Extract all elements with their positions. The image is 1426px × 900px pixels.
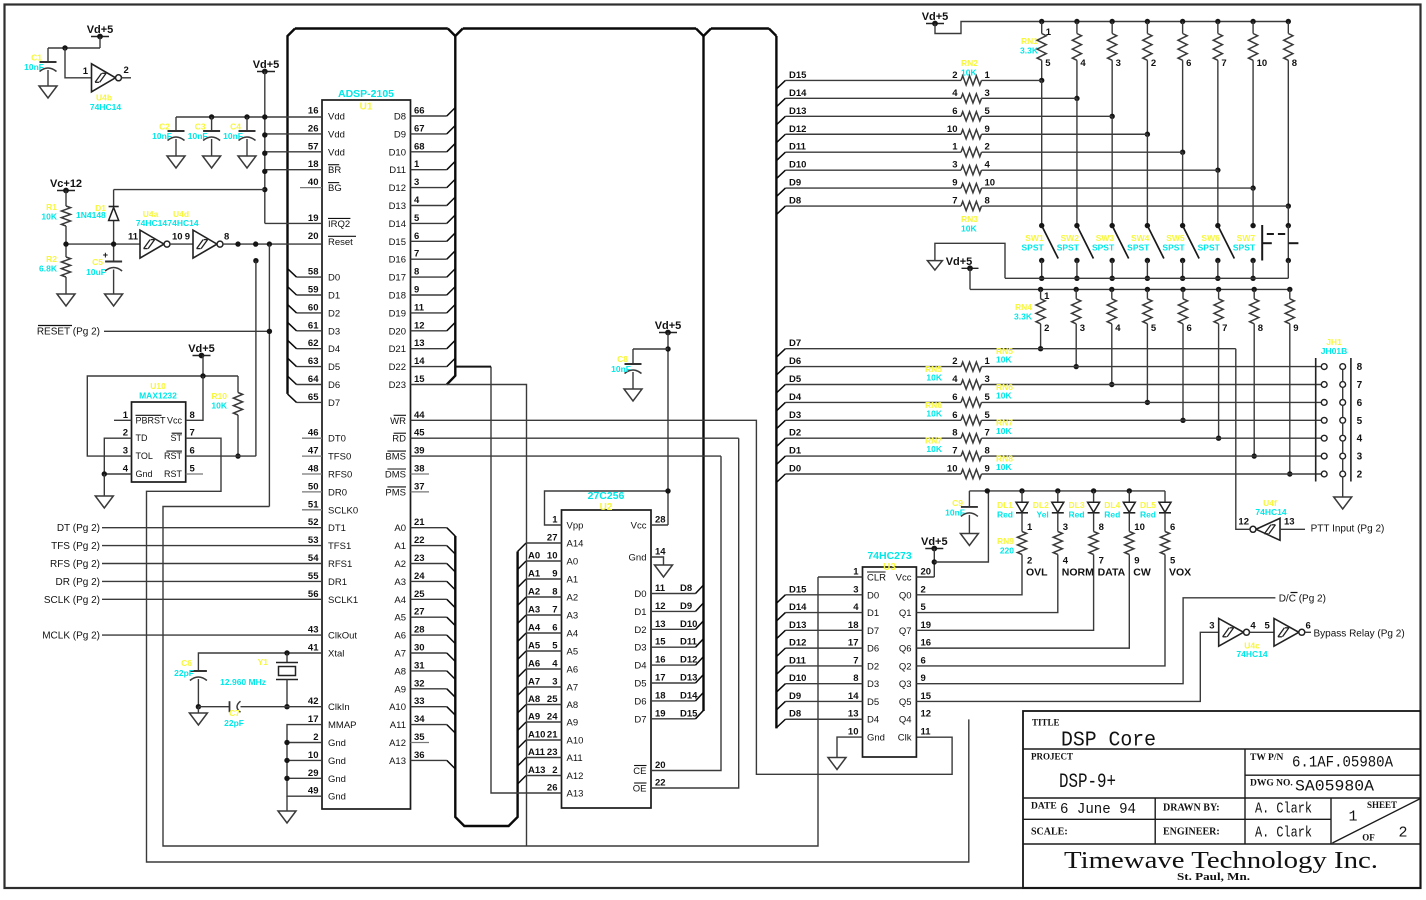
wire D15 to pullup column bbox=[982, 79, 1042, 81]
wire U1 D21 bus entry bbox=[411, 348, 447, 350]
resistor RN6 10K on D4 bbox=[785, 401, 961, 403]
svg-text:47: 47 bbox=[308, 446, 319, 457]
wire U1 serial port 0 stub (n.c.) bbox=[302, 437, 322, 439]
svg-text:SW5: SW5 bbox=[1166, 233, 1185, 243]
svg-text:19: 19 bbox=[308, 213, 319, 224]
svg-text:15: 15 bbox=[655, 637, 666, 648]
svg-text:14: 14 bbox=[414, 356, 425, 367]
svg-text:2: 2 bbox=[552, 765, 557, 776]
svg-text:4: 4 bbox=[1357, 434, 1363, 445]
svg-text:3.3K: 3.3K bbox=[1014, 312, 1033, 322]
svg-text:A1: A1 bbox=[394, 541, 406, 552]
svg-text:38: 38 bbox=[414, 464, 425, 475]
svg-text:U2: U2 bbox=[600, 502, 613, 513]
svg-text:RN4: RN4 bbox=[1015, 302, 1032, 312]
svg-text:DSP Core: DSP Core bbox=[1061, 730, 1156, 753]
svg-text:Q3: Q3 bbox=[899, 679, 912, 690]
ground at U3 Gnd bbox=[837, 737, 863, 757]
ground at U2 Gnd bbox=[651, 557, 664, 565]
svg-text:60: 60 bbox=[308, 302, 319, 313]
svg-text:D14: D14 bbox=[389, 219, 406, 230]
svg-text:D15: D15 bbox=[789, 584, 807, 595]
svg-text:3: 3 bbox=[853, 584, 858, 595]
svg-text:RFS (Pg 2): RFS (Pg 2) bbox=[50, 559, 100, 570]
svg-text:5: 5 bbox=[1151, 323, 1157, 334]
wire D2 row bbox=[776, 438, 785, 447]
svg-text:10: 10 bbox=[1257, 58, 1268, 69]
wire between inverters bbox=[170, 243, 193, 245]
JH1 pin 8 bbox=[1321, 364, 1327, 370]
wire U1 BG stub (n.c.) bbox=[300, 187, 322, 189]
wire U2 CE to U1 BMS bbox=[651, 456, 721, 770]
svg-text:30: 30 bbox=[414, 643, 425, 654]
svg-text:8: 8 bbox=[1099, 522, 1104, 533]
resistor RN5 10K on D5 bbox=[785, 384, 961, 386]
svg-text:A10: A10 bbox=[389, 702, 406, 713]
svg-text:7: 7 bbox=[190, 428, 195, 439]
capacitor C8 10nF bbox=[633, 348, 668, 350]
svg-text:SHEET: SHEET bbox=[1367, 800, 1397, 810]
wire U1 D18 bus entry bbox=[411, 294, 447, 296]
ground at JH1 bbox=[1342, 477, 1344, 497]
svg-text:31: 31 bbox=[414, 660, 425, 671]
svg-text:D11: D11 bbox=[789, 142, 807, 153]
svg-text:D3: D3 bbox=[634, 643, 646, 654]
svg-text:1N4148: 1N4148 bbox=[76, 210, 106, 220]
svg-text:D1: D1 bbox=[634, 607, 646, 618]
svg-text:10uF: 10uF bbox=[86, 267, 106, 277]
svg-text:41: 41 bbox=[308, 643, 319, 654]
resistor RN2/RN3 10K on D13 bbox=[776, 116, 785, 125]
svg-text:D2: D2 bbox=[634, 625, 646, 636]
svg-text:D12: D12 bbox=[389, 183, 406, 194]
svg-text:OE: OE bbox=[633, 784, 647, 795]
svg-text:D4: D4 bbox=[789, 392, 802, 403]
resistor RN1 section pin 10 bbox=[1250, 19, 1255, 24]
svg-text:6: 6 bbox=[952, 106, 957, 117]
wire between bypass inverters bbox=[1250, 631, 1275, 633]
svg-text:D14: D14 bbox=[789, 602, 807, 613]
svg-text:10K: 10K bbox=[996, 462, 1012, 472]
wire NORM to U3 Q output bbox=[916, 555, 1057, 613]
svg-text:DR (Pg 2): DR (Pg 2) bbox=[56, 577, 100, 588]
svg-text:D10: D10 bbox=[789, 673, 806, 684]
svg-text:16: 16 bbox=[921, 638, 932, 649]
svg-text:74HC14: 74HC14 bbox=[167, 218, 198, 228]
svg-text:9: 9 bbox=[414, 285, 419, 296]
svg-text:D10: D10 bbox=[680, 619, 697, 630]
crystal Y1 12.960 MHz bbox=[286, 653, 288, 663]
svg-text:20: 20 bbox=[921, 567, 932, 578]
svg-text:8: 8 bbox=[853, 673, 858, 684]
svg-text:12: 12 bbox=[655, 601, 666, 612]
svg-text:7: 7 bbox=[985, 428, 990, 439]
svg-text:2: 2 bbox=[1027, 556, 1032, 567]
svg-text:D12: D12 bbox=[789, 124, 806, 135]
svg-text:22pF: 22pF bbox=[174, 668, 194, 678]
svg-text:A0: A0 bbox=[528, 551, 540, 562]
svg-text:D23: D23 bbox=[389, 380, 406, 391]
svg-text:Vdd: Vdd bbox=[328, 147, 345, 158]
diode D1 1N4148 clamp to Vd+5 bbox=[113, 190, 115, 207]
svg-text:6: 6 bbox=[1186, 58, 1191, 69]
svg-text:13: 13 bbox=[414, 338, 425, 349]
wire CW to U3 Q output bbox=[916, 555, 1129, 649]
switch SW4 SPST bbox=[1147, 226, 1164, 259]
svg-text:61: 61 bbox=[308, 320, 319, 331]
svg-text:9: 9 bbox=[1293, 323, 1298, 334]
svg-text:13: 13 bbox=[1284, 517, 1295, 528]
resistor RN4 section pin 6 bbox=[1180, 287, 1185, 292]
wire D12 to pullup column bbox=[982, 133, 1148, 135]
resistor RN4 section pin 5 bbox=[1145, 287, 1150, 292]
svg-text:1: 1 bbox=[853, 567, 859, 578]
title block bbox=[1023, 711, 1421, 888]
svg-text:Vcc: Vcc bbox=[167, 415, 183, 425]
svg-text:A7: A7 bbox=[528, 677, 540, 688]
svg-text:7: 7 bbox=[414, 249, 419, 260]
capacitor C9 10nF bbox=[968, 491, 970, 507]
svg-text:29: 29 bbox=[308, 768, 319, 779]
svg-text:SPST: SPST bbox=[1021, 243, 1044, 253]
svg-text:3: 3 bbox=[1357, 452, 1363, 463]
svg-text:A6: A6 bbox=[528, 659, 540, 670]
svg-text:6 June 94: 6 June 94 bbox=[1060, 801, 1136, 818]
LED DL5 Red bbox=[1164, 491, 1166, 502]
svg-text:6: 6 bbox=[414, 231, 419, 242]
wire U1 D19 bus entry bbox=[411, 312, 447, 314]
wire U1 A3 bus entry bbox=[411, 580, 447, 582]
svg-text:C2: C2 bbox=[159, 122, 170, 132]
wire D11 to pullup column bbox=[982, 151, 1183, 153]
wire D7 row bbox=[776, 349, 785, 358]
svg-text:SCALE:: SCALE: bbox=[1031, 827, 1068, 838]
svg-text:64: 64 bbox=[308, 374, 319, 385]
svg-text:D11: D11 bbox=[389, 165, 406, 176]
svg-text:6: 6 bbox=[552, 623, 557, 634]
svg-text:7: 7 bbox=[1221, 58, 1226, 69]
svg-text:D9: D9 bbox=[394, 129, 406, 140]
svg-text:10nF: 10nF bbox=[611, 364, 631, 374]
wire U1 DMS stub (n.c.) bbox=[411, 473, 430, 475]
svg-text:Gnd: Gnd bbox=[136, 469, 153, 479]
svg-text:4: 4 bbox=[853, 602, 859, 613]
svg-text:D14: D14 bbox=[789, 88, 807, 99]
resistor RN4 section pin 2 bbox=[1038, 287, 1043, 292]
svg-text:Q6: Q6 bbox=[899, 644, 912, 655]
svg-text:44: 44 bbox=[414, 410, 425, 421]
svg-text:U3: U3 bbox=[883, 562, 896, 573]
svg-text:A10: A10 bbox=[567, 736, 584, 747]
svg-text:7: 7 bbox=[853, 655, 858, 666]
svg-text:18: 18 bbox=[848, 620, 859, 631]
svg-text:12: 12 bbox=[1238, 517, 1249, 528]
svg-text:74HC14: 74HC14 bbox=[90, 102, 121, 112]
resistor RN2/RN3 10K on D15 bbox=[776, 80, 785, 89]
svg-text:10K: 10K bbox=[41, 212, 57, 222]
svg-text:4: 4 bbox=[1063, 556, 1069, 567]
svg-text:10K: 10K bbox=[926, 408, 942, 418]
resistor RN1 section pin 5 bbox=[1039, 19, 1044, 24]
svg-text:28: 28 bbox=[414, 625, 425, 636]
svg-text:A2: A2 bbox=[528, 587, 540, 598]
svg-text:50: 50 bbox=[308, 481, 319, 492]
svg-text:10K: 10K bbox=[926, 444, 942, 454]
svg-text:66: 66 bbox=[414, 106, 425, 117]
svg-text:Red: Red bbox=[1069, 510, 1085, 520]
wire U3 Q3 to D/C (Pg 2) bbox=[916, 598, 1275, 684]
svg-text:6: 6 bbox=[1306, 621, 1311, 632]
wire U1 serial port 0 stub (n.c.) bbox=[302, 455, 322, 457]
LED DL1 Red bbox=[1019, 488, 1024, 493]
svg-text:3: 3 bbox=[985, 88, 990, 99]
svg-text:9: 9 bbox=[952, 178, 957, 189]
wire U2 Vpp to Vd+5 bbox=[545, 491, 669, 525]
wire U1 BMS line bbox=[411, 455, 722, 457]
svg-text:D9: D9 bbox=[789, 178, 801, 189]
svg-text:4: 4 bbox=[414, 195, 420, 206]
svg-text:2: 2 bbox=[921, 584, 926, 595]
wire pullup to switch bbox=[1146, 134, 1148, 225]
svg-text:4: 4 bbox=[1080, 58, 1086, 69]
svg-text:55: 55 bbox=[308, 571, 319, 582]
resistor RN9 220 section 1 bbox=[1021, 513, 1023, 532]
wire U1 A13 bus entry bbox=[411, 759, 447, 761]
svg-text:9: 9 bbox=[1134, 556, 1139, 567]
svg-text:RN3: RN3 bbox=[961, 214, 978, 224]
svg-text:A11: A11 bbox=[390, 720, 406, 731]
resistor RN2/RN3 10K on D9 bbox=[776, 188, 785, 197]
svg-text:A9: A9 bbox=[567, 718, 579, 729]
wire U1 D4 bus entry bbox=[297, 348, 323, 350]
wire U1 D15 bus entry bbox=[411, 240, 447, 242]
svg-text:DATE: DATE bbox=[1031, 802, 1057, 812]
resistor RN4 section pin 8 bbox=[1252, 287, 1257, 292]
svg-text:D2: D2 bbox=[867, 661, 879, 672]
resistor RN9 220 section 2 bbox=[1057, 513, 1059, 532]
svg-text:10: 10 bbox=[848, 727, 859, 738]
svg-text:A4: A4 bbox=[567, 629, 579, 640]
svg-text:74HC273: 74HC273 bbox=[867, 550, 912, 562]
svg-text:A12: A12 bbox=[389, 738, 406, 749]
svg-text:TITLE: TITLE bbox=[1032, 718, 1060, 728]
wire pullup to switch bbox=[1252, 188, 1254, 226]
svg-text:59: 59 bbox=[308, 285, 319, 296]
svg-text:D10: D10 bbox=[389, 147, 406, 158]
svg-text:DR0: DR0 bbox=[328, 487, 347, 498]
svg-text:D15: D15 bbox=[389, 237, 406, 248]
svg-text:ClkOut: ClkOut bbox=[328, 631, 357, 642]
wire U10 RST to reset line bbox=[186, 455, 256, 457]
svg-text:10: 10 bbox=[308, 750, 319, 761]
switch SW2 SPST bbox=[1077, 226, 1094, 259]
svg-text:8: 8 bbox=[952, 428, 957, 439]
svg-text:17: 17 bbox=[848, 638, 859, 649]
svg-text:PMS: PMS bbox=[385, 487, 406, 498]
wire U1 D20 bus entry bbox=[411, 330, 447, 332]
svg-text:4: 4 bbox=[952, 374, 958, 385]
wire U10 ST to latch Q4 bbox=[147, 438, 969, 862]
svg-text:D3: D3 bbox=[328, 326, 340, 337]
svg-text:SW7: SW7 bbox=[1237, 233, 1256, 243]
wire D0 row bbox=[776, 474, 785, 483]
resistor RN1 section pin 6 bbox=[1180, 19, 1185, 24]
inverter U4f 74HC14 PTT (pins 13-12) bbox=[1256, 518, 1280, 540]
svg-text:Reset: Reset bbox=[328, 237, 353, 248]
svg-text:8: 8 bbox=[1357, 362, 1363, 373]
svg-text:MAX1232: MAX1232 bbox=[139, 391, 177, 401]
wire U1 D16 bus entry bbox=[411, 258, 447, 260]
wire pullup to switch bbox=[1041, 80, 1043, 225]
svg-text:18: 18 bbox=[655, 690, 666, 701]
svg-text:DL5: DL5 bbox=[1140, 500, 1156, 510]
svg-text:C1: C1 bbox=[31, 53, 42, 63]
svg-text:SW1: SW1 bbox=[1025, 233, 1044, 243]
capacitor C3 10nF bbox=[211, 117, 213, 131]
svg-text:SA05980A: SA05980A bbox=[1295, 778, 1375, 796]
wire pullup to switch bbox=[1076, 98, 1078, 225]
svg-text:D14: D14 bbox=[680, 690, 698, 701]
svg-text:12.960 MHz: 12.960 MHz bbox=[220, 677, 266, 687]
wire U1 D22 bus entry bbox=[411, 366, 447, 368]
svg-text:27: 27 bbox=[547, 533, 558, 544]
svg-text:3: 3 bbox=[123, 446, 128, 457]
LED DL3 Red bbox=[1091, 488, 1096, 493]
inverter U4c 74HC14 (pins 3-4) bbox=[1219, 618, 1244, 646]
svg-text:25: 25 bbox=[414, 589, 425, 600]
wire U1 D23 bus entry bbox=[411, 384, 447, 386]
switch SW3 SPST bbox=[1112, 226, 1129, 259]
svg-text:36: 36 bbox=[414, 750, 425, 761]
svg-text:15: 15 bbox=[414, 374, 425, 385]
svg-text:20: 20 bbox=[655, 760, 666, 771]
wire data bus right drop (latch inputs / D rows) bbox=[769, 29, 777, 37]
svg-text:D13: D13 bbox=[680, 673, 697, 684]
wire D3 row bbox=[776, 420, 785, 429]
svg-text:9: 9 bbox=[985, 464, 990, 475]
svg-text:10: 10 bbox=[947, 124, 958, 135]
svg-text:45: 45 bbox=[414, 428, 425, 439]
svg-text:DL4: DL4 bbox=[1104, 500, 1120, 510]
svg-text:D5: D5 bbox=[634, 679, 646, 690]
svg-text:A13: A13 bbox=[389, 756, 406, 767]
svg-text:PTT Input (Pg 2): PTT Input (Pg 2) bbox=[1311, 524, 1385, 535]
svg-text:10nF: 10nF bbox=[945, 508, 965, 518]
svg-text:RN1: RN1 bbox=[1021, 36, 1038, 46]
svg-text:63: 63 bbox=[308, 356, 319, 367]
svg-text:32: 32 bbox=[414, 678, 425, 689]
wire U1 D2 bus entry bbox=[297, 312, 323, 314]
wire pullup to switch bbox=[1217, 170, 1219, 225]
capacitor C6 22pF bbox=[190, 670, 207, 672]
wire U1 A8 bus entry bbox=[411, 670, 447, 672]
wire switch common rail to ground bbox=[1005, 277, 1288, 279]
svg-text:C6: C6 bbox=[181, 658, 192, 668]
svg-text:D4: D4 bbox=[328, 344, 340, 355]
svg-text:6: 6 bbox=[1357, 398, 1363, 409]
svg-text:46: 46 bbox=[308, 428, 319, 439]
svg-text:D15: D15 bbox=[680, 708, 698, 719]
svg-text:CW: CW bbox=[1133, 567, 1151, 579]
svg-text:67: 67 bbox=[414, 123, 425, 134]
wire data bus left drop (D0-D7) bbox=[288, 29, 296, 394]
wire U1 WR line to latch Clk bbox=[411, 420, 953, 774]
svg-text:A14: A14 bbox=[567, 539, 584, 550]
svg-text:10: 10 bbox=[172, 232, 183, 243]
svg-text:D/C (Pg 2): D/C (Pg 2) bbox=[1279, 594, 1326, 605]
svg-text:D9: D9 bbox=[789, 691, 801, 702]
resistor RN1 section pin 3 bbox=[1109, 19, 1114, 24]
svg-text:1: 1 bbox=[985, 356, 991, 367]
svg-text:TFS1: TFS1 bbox=[328, 541, 351, 552]
svg-text:5: 5 bbox=[1357, 416, 1363, 427]
svg-text:Q4: Q4 bbox=[899, 715, 912, 726]
wire U1 D14 bus entry bbox=[411, 222, 447, 224]
svg-text:MCLK (Pg 2): MCLK (Pg 2) bbox=[42, 631, 100, 642]
wire reset to RESET (Pg 2) and CLR net bbox=[268, 244, 270, 506]
resistor RN2/RN3 10K on D10 bbox=[776, 170, 785, 179]
svg-text:RD: RD bbox=[392, 434, 406, 445]
svg-text:SCLK0: SCLK0 bbox=[328, 505, 358, 516]
switch SW6 SPST bbox=[1218, 226, 1235, 259]
svg-text:Q1: Q1 bbox=[899, 608, 912, 619]
wire D13 to pullup column bbox=[982, 115, 1113, 117]
svg-text:23: 23 bbox=[414, 553, 425, 564]
wire U10 PBRST stub bbox=[114, 419, 132, 421]
svg-text:3: 3 bbox=[1116, 58, 1121, 69]
svg-text:35: 35 bbox=[414, 732, 425, 743]
svg-text:D16: D16 bbox=[389, 255, 406, 266]
svg-text:A. Clark: A. Clark bbox=[1255, 801, 1312, 818]
svg-text:DT0: DT0 bbox=[328, 434, 346, 445]
wire U1 D6 bus entry bbox=[297, 384, 323, 386]
svg-text:RFS1: RFS1 bbox=[328, 559, 352, 570]
resistor RN1 section pin 8 bbox=[1286, 19, 1291, 24]
svg-text:Yel: Yel bbox=[1037, 510, 1049, 520]
svg-text:37: 37 bbox=[414, 481, 425, 492]
node Bypass Relay (Pg 2) bbox=[1305, 631, 1311, 633]
svg-text:68: 68 bbox=[414, 141, 425, 152]
wire DATA to U3 Q output bbox=[916, 555, 1093, 631]
wire U1 D7 bus entry bbox=[297, 401, 323, 403]
svg-text:18: 18 bbox=[308, 159, 319, 170]
svg-text:U1: U1 bbox=[360, 102, 373, 113]
wire D14 to pullup column bbox=[982, 97, 1077, 99]
svg-text:D3: D3 bbox=[789, 410, 801, 421]
svg-text:51: 51 bbox=[308, 499, 319, 510]
wire U1 D11 bus entry bbox=[411, 169, 447, 171]
svg-text:27C256: 27C256 bbox=[588, 490, 625, 502]
svg-text:ADSP-2105: ADSP-2105 bbox=[338, 88, 394, 100]
svg-text:12: 12 bbox=[414, 320, 425, 331]
svg-text:26: 26 bbox=[308, 123, 319, 134]
svg-text:D9: D9 bbox=[680, 601, 692, 612]
wire data bus drop at EPROM outputs bbox=[696, 29, 704, 37]
wire D1 row bbox=[776, 456, 785, 465]
inverter U4a 74HC14 (pins 11-10) bbox=[140, 230, 164, 258]
svg-text:54: 54 bbox=[308, 553, 319, 564]
svg-text:D20: D20 bbox=[389, 326, 406, 337]
svg-text:9: 9 bbox=[985, 124, 990, 135]
svg-text:11: 11 bbox=[655, 583, 666, 594]
svg-text:SCLK1: SCLK1 bbox=[328, 595, 358, 606]
resistor RN7 10K on D1 bbox=[785, 455, 961, 457]
wire U1 D8 bus entry bbox=[411, 115, 447, 117]
svg-text:CLR: CLR bbox=[867, 573, 886, 584]
ground at C6/C7 bbox=[196, 704, 201, 709]
svg-text:10nF: 10nF bbox=[152, 131, 172, 141]
svg-text:D10: D10 bbox=[789, 160, 806, 171]
